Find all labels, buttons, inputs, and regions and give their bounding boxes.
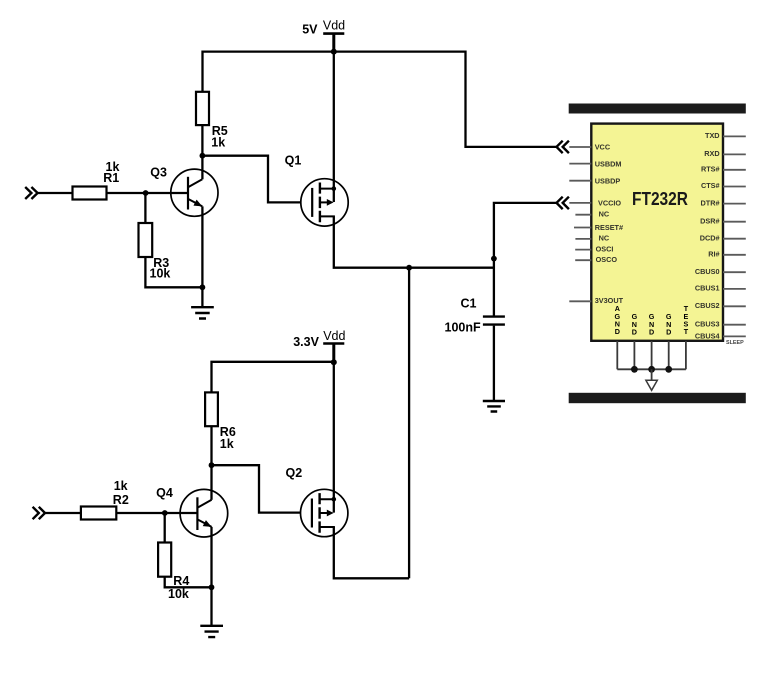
pin wire OSCO	[575, 259, 591, 261]
junction GND1/bus	[631, 366, 638, 373]
MOSFET Q1	[301, 179, 348, 226]
pin wire TXD	[723, 135, 746, 137]
svg-text:R2: R2	[113, 493, 129, 507]
pin label GND1 (vertical)	[632, 312, 638, 336]
transistor Q4 (NPN)	[180, 489, 228, 537]
wire Q2 source to vertical link	[334, 527, 409, 578]
svg-text:FT232R: FT232R	[632, 188, 688, 209]
black bar top (chip image)	[569, 104, 746, 114]
svg-text:1k: 1k	[220, 437, 234, 451]
resistor R1	[73, 187, 107, 200]
resistor R3	[139, 223, 153, 257]
svg-text:Q4: Q4	[156, 486, 173, 500]
svg-text:USBDP: USBDP	[595, 176, 621, 185]
svg-text:TXD: TXD	[705, 131, 720, 140]
wire IN1 to R1	[38, 192, 73, 194]
svg-text:DSR#: DSR#	[700, 216, 719, 225]
pin wire NC (top)	[575, 214, 591, 216]
wire R6 top / 3.3V rail	[212, 362, 334, 393]
pin wire CBUS4	[723, 335, 746, 337]
junction on VCCIO vertical	[491, 256, 497, 262]
pin wire USBDP	[569, 180, 591, 182]
pin wire GND1 down	[633, 341, 635, 369]
input port connector IN2 (double chevron)	[33, 507, 45, 519]
svg-text:Vdd: Vdd	[323, 19, 345, 33]
junction emitter/R4/ground	[209, 584, 215, 590]
svg-text:OSCI: OSCI	[596, 244, 614, 253]
wire R6 bottom to node	[210, 426, 212, 465]
svg-text:SLEEP: SLEEP	[726, 340, 744, 346]
MOSFET Q2	[301, 489, 348, 536]
svg-text:CBUS1: CBUS1	[695, 284, 720, 293]
svg-text:D: D	[615, 327, 620, 336]
svg-text:RI#: RI#	[708, 250, 719, 259]
pin wire RI#	[723, 254, 746, 256]
node junction base of Q3 / R3	[143, 190, 149, 196]
svg-text:CBUS3: CBUS3	[695, 319, 720, 328]
wire node to R4	[164, 513, 166, 543]
junction emitter/R3/ground	[200, 284, 206, 290]
ground symbol (chip, open triangle)	[646, 380, 657, 390]
pin wire DCD#	[723, 238, 746, 240]
wire Q3 emitter to ground	[201, 206, 203, 307]
node junction collector/R6/Q2 gate	[209, 462, 215, 468]
ground symbol (Q4 emitter)	[200, 626, 223, 637]
transistor Q3 (NPN)	[171, 169, 218, 216]
svg-text:C1: C1	[461, 297, 477, 311]
svg-text:Q1: Q1	[285, 154, 302, 168]
svg-text:D: D	[666, 328, 671, 337]
wire R4 bottom to emitter net	[165, 577, 212, 588]
ground symbol (Q3 emitter)	[191, 307, 214, 318]
svg-text:1k: 1k	[211, 136, 225, 150]
pin wire AGND down	[616, 341, 618, 369]
pin wire CTS#	[723, 186, 746, 188]
junction source rail / vertical link	[406, 265, 412, 271]
svg-text:DTR#: DTR#	[701, 198, 720, 207]
junction GND2/bus	[648, 366, 655, 373]
wire VCCIO chevron / vertical to C1	[494, 203, 557, 316]
wire R3 bottom to emitter net	[145, 257, 202, 287]
svg-text:5V: 5V	[302, 23, 318, 37]
junction 3.3V rail / Vdd / Q2 drain	[331, 359, 337, 365]
pin wire NC (bottom)	[575, 238, 591, 240]
svg-text:CTS#: CTS#	[701, 181, 720, 190]
pin wire 3V3OUT	[569, 300, 591, 302]
wire node to R3	[144, 193, 146, 223]
svg-text:RTS#: RTS#	[701, 165, 720, 174]
pin wire DTR#	[723, 203, 746, 205]
svg-text:10k: 10k	[150, 267, 171, 281]
input port connector IN1 (double chevron)	[25, 187, 37, 199]
pin wire GND3 down	[668, 341, 670, 369]
svg-text:OSCO: OSCO	[596, 255, 618, 264]
svg-text:USBDM: USBDM	[595, 159, 622, 168]
wire Q1 source rail to VCCIO net	[334, 216, 494, 267]
pin wire TEST down	[685, 341, 687, 369]
svg-text:100nF: 100nF	[445, 321, 481, 335]
wire bus to ground triangle	[651, 369, 653, 380]
wire Q2 gate path	[212, 465, 302, 512]
svg-text:NC: NC	[599, 234, 610, 243]
svg-text:T: T	[684, 327, 689, 336]
junction GND3/bus	[665, 366, 672, 373]
resistor R2	[81, 507, 116, 520]
svg-text:Q2: Q2	[286, 466, 303, 480]
pin wire RESET#	[574, 227, 591, 229]
ground symbol (C1)	[483, 401, 505, 412]
svg-text:Vdd: Vdd	[323, 329, 345, 343]
pin wire RXD	[723, 153, 746, 155]
svg-text:DCD#: DCD#	[700, 233, 720, 242]
pin wire CBUS3	[723, 324, 746, 326]
pin wire VCC	[569, 146, 591, 148]
wire Q4 collector to R6 node	[210, 465, 212, 500]
wire Q1 drain from 5V rail	[333, 52, 335, 202]
wire R5 top / 5V rail / drop to VCC chevron	[203, 52, 557, 147]
node junction collector/R5/Q1 gate	[200, 153, 206, 159]
wire Q2 drain from 3.3V rail	[333, 362, 335, 512]
pin wire DSR#	[723, 221, 746, 223]
pin wire CBUS2	[723, 305, 746, 307]
svg-text:R1: R1	[103, 171, 119, 185]
pin label GND2 (vertical)	[649, 312, 655, 336]
resistor R5	[196, 92, 209, 125]
svg-text:D: D	[632, 328, 637, 337]
power symbol Vdd (3.3V)	[323, 342, 344, 345]
svg-text:CBUS2: CBUS2	[695, 301, 720, 310]
svg-text:RESET#: RESET#	[595, 223, 623, 232]
svg-text:1k: 1k	[114, 479, 128, 493]
wire C1 to ground	[493, 326, 495, 401]
pin wire CBUS0	[723, 271, 746, 273]
resistor R6	[205, 392, 218, 426]
pin wire USBDM	[569, 163, 591, 165]
pin label GND3 (vertical)	[666, 312, 672, 336]
pin label TEST (vertical)	[684, 304, 689, 336]
wire R2 to Q4 base	[116, 512, 198, 514]
pin wire RTS#	[723, 169, 746, 171]
svg-text:CBUS4: CBUS4	[695, 332, 721, 341]
pin wire CBUS1	[723, 288, 746, 290]
svg-text:CBUS0: CBUS0	[695, 267, 720, 276]
resistor R4	[158, 543, 171, 577]
svg-text:VCC: VCC	[595, 143, 611, 152]
wire R1 to Q3 base	[107, 192, 189, 194]
wire IN2 to R2	[45, 512, 81, 514]
power symbol Vdd (5V)	[323, 32, 344, 35]
black bar bottom (chip image)	[569, 393, 746, 403]
wire ground bus	[617, 368, 686, 370]
wire Q3 collector to R5	[201, 125, 203, 179]
svg-text:RXD: RXD	[704, 149, 719, 158]
IC U1 FT232R body	[591, 124, 723, 341]
wire Q1 gate path	[202, 156, 301, 203]
capacitor C1	[483, 317, 505, 325]
svg-text:10k: 10k	[168, 587, 189, 601]
svg-text:VCCIO: VCCIO	[598, 198, 621, 207]
port chevron to VCC pin	[557, 141, 569, 153]
junction 5V rail / Vdd / Q1 drain	[331, 49, 337, 55]
wire vertical link to Q1 source rail	[408, 268, 410, 579]
pin wire OSCI	[575, 249, 591, 251]
pin label AGND (vertical)	[615, 304, 621, 336]
node junction base of Q4 / R4	[162, 510, 168, 516]
svg-text:3.3V: 3.3V	[293, 335, 319, 349]
wire Q4 emitter to ground	[210, 527, 212, 626]
pin wire GND2 down	[651, 341, 653, 369]
pin wire VCCIO	[569, 202, 591, 204]
port chevron to VCCIO pin	[557, 197, 569, 209]
svg-text:Q3: Q3	[150, 165, 167, 179]
svg-text:NC: NC	[599, 209, 610, 218]
svg-text:D: D	[649, 328, 654, 337]
